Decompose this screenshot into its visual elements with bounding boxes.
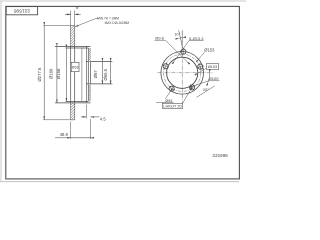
bore circle	[167, 57, 198, 88]
ring top edge	[71, 25, 75, 27]
flange hatch top	[89, 48, 92, 61]
bore top line	[86, 60, 112, 62]
bolt circle	[164, 54, 201, 91]
ring left face	[70, 26, 72, 120]
dimension Ø65.5	[110, 61, 112, 84]
svg-text:Ø16: Ø16	[72, 66, 79, 70]
20 degree construction	[197, 86, 215, 97]
dimension 9 extensions	[71, 11, 75, 26]
dimension Ø67	[101, 61, 103, 84]
svg-text:48.9: 48.9	[60, 132, 69, 137]
svg-text:Ø103: Ø103	[208, 65, 217, 69]
svg-text:9: 9	[76, 5, 79, 10]
drum outer bottom	[55, 102, 91, 104]
ring hatch top	[71, 26, 75, 47]
dimension 48.9 extensions	[71, 119, 91, 139]
dimension Ø166	[56, 46, 58, 103]
svg-text:LHKUT 20: LHKUT 20	[163, 105, 182, 109]
dimension 9	[65, 13, 71, 15]
drum end face	[85, 46, 87, 103]
svg-text:Ø158: Ø158	[56, 68, 61, 79]
svg-text:4.5: 4.5	[100, 117, 106, 122]
svg-text:20°: 20°	[203, 88, 209, 92]
ring hatch bottom	[71, 103, 75, 120]
bolt hole top	[180, 48, 188, 56]
drum outer top	[55, 45, 91, 47]
svg-text:Ø166: Ø166	[49, 68, 54, 79]
ring right face	[74, 26, 76, 120]
vertical centerline	[181, 31, 183, 104]
bore bottom line	[86, 83, 112, 85]
bolt hole upper-left	[161, 62, 170, 71]
svg-text:5-Ø13.3: 5-Ø13.3	[189, 36, 204, 41]
svg-text:Ø100: Ø100	[209, 76, 220, 81]
note leader	[75, 18, 99, 26]
horizontal centerline	[158, 72, 213, 74]
outer circle	[161, 52, 204, 95]
tolerance box	[71, 62, 79, 71]
flange hatch bottom	[89, 84, 92, 102]
dimension 4.5	[81, 116, 87, 118]
svg-text:221595: 221595	[13, 8, 30, 14]
svg-text:Ø277.6: Ø277.6	[37, 67, 42, 82]
dimension extensions Ø277.6	[43, 26, 70, 120]
title tab	[6, 7, 37, 15]
drum inner bottom	[66, 100, 89, 102]
svg-text:Ø153: Ø153	[204, 47, 215, 52]
flange left face	[87, 48, 89, 101]
flange right face	[90, 48, 92, 101]
dimension Ø277.6	[43, 26, 45, 120]
drum inner top	[66, 47, 89, 49]
drawing frame	[6, 6, 240, 179]
bolt hole lower-right	[187, 82, 197, 92]
10 degree construction	[179, 30, 183, 48]
label Ø103 box	[206, 64, 218, 70]
svg-text:MAX DIA 162MM: MAX DIA 162MM	[105, 20, 130, 25]
svg-text:Ø9.6: Ø9.6	[155, 35, 164, 40]
dimension 4.5 extensions	[85, 105, 87, 119]
svg-text:Ø65.5: Ø65.5	[103, 68, 108, 80]
bolt hole right	[196, 62, 205, 71]
label LHKUT 20 box	[162, 103, 182, 108]
dimension Ø158	[65, 48, 67, 101]
svg-text:Ø67: Ø67	[93, 70, 98, 79]
svg-text:221595: 221595	[213, 153, 229, 158]
dimension 48.9	[55, 137, 71, 139]
hub interior line	[81, 48, 83, 101]
svg-text:10°: 10°	[174, 32, 180, 36]
ring bottom edge	[71, 119, 75, 121]
bolt hole lower-left	[167, 84, 177, 94]
page edge	[0, 1, 246, 182]
